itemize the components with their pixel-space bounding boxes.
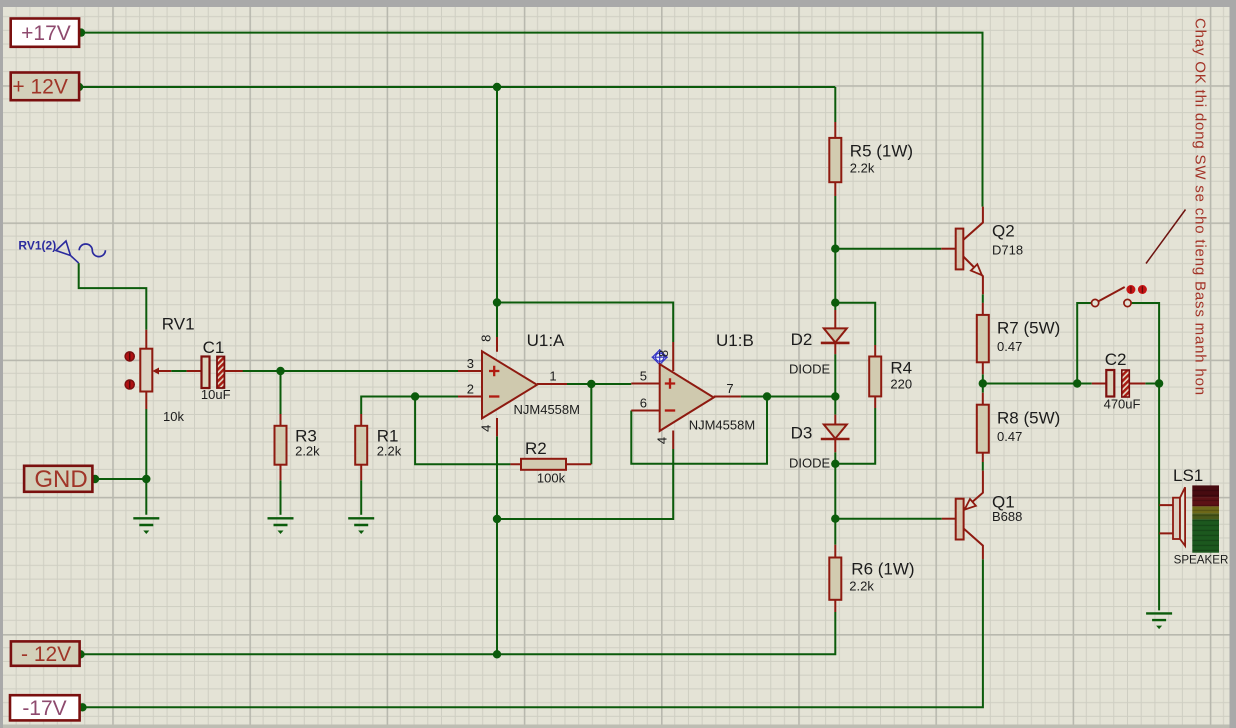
wire R3 top [280, 371, 282, 414]
svg-text:8: 8 [479, 335, 494, 342]
svg-text:U1:B: U1:B [716, 331, 754, 350]
svg-text:220: 220 [890, 377, 912, 392]
svg-text:2.2k: 2.2k [295, 444, 320, 459]
svg-text:2.2k: 2.2k [849, 578, 874, 593]
svg-text:R7 (5W): R7 (5W) [997, 319, 1060, 338]
svg-text:4: 4 [479, 425, 494, 432]
svg-text:0.47: 0.47 [997, 339, 1022, 354]
svg-text:R4: R4 [890, 358, 912, 377]
node GND label [91, 475, 99, 483]
node GND pot [142, 475, 150, 483]
svg-text:470uF: 470uF [1104, 397, 1141, 412]
power label GND [24, 466, 92, 493]
node R1 pin2 [411, 392, 419, 400]
svg-text:NJM4558M: NJM4558M [689, 418, 755, 433]
power label +12V [11, 73, 79, 101]
resistor R4 [869, 345, 912, 408]
svg-text:SPEAKER: SPEAKER [1174, 554, 1229, 567]
wire +17V rail [80, 33, 983, 207]
node +12V [75, 83, 83, 91]
wire speaker column [1158, 384, 1160, 611]
wire pin2 node down to R2 [415, 397, 510, 465]
wire +12V down pin8 column [496, 87, 498, 337]
node Q2 base [831, 245, 839, 253]
node pin4 row [493, 515, 501, 523]
wire R5 top [834, 87, 836, 122]
potentiometer RV1 [125, 315, 201, 425]
wire +12V rail [79, 86, 835, 88]
svg-text:8: 8 [656, 350, 671, 357]
diode D3 [789, 415, 850, 471]
wire U1B feedback [631, 397, 767, 464]
diode D2 [789, 310, 850, 377]
wire R1 bottom [360, 480, 362, 515]
capacitor C2 [1092, 350, 1146, 412]
svg-text:10k: 10k [163, 409, 184, 424]
wire R4 top hook [835, 303, 875, 345]
svg-text:GND: GND [34, 466, 87, 493]
svg-text:B688: B688 [992, 509, 1022, 524]
op-amp U1:A [458, 331, 580, 436]
wire output row to C2 [983, 383, 1092, 385]
node Q1 base [831, 515, 839, 523]
wire pin4 column down [496, 436, 498, 654]
ground symbol R3 [268, 518, 294, 534]
bottom edge strip [3, 725, 1230, 728]
svg-text:RV1(2): RV1(2) [18, 238, 56, 252]
svg-text:0.47: 0.47 [997, 429, 1022, 444]
switch SW [1092, 285, 1147, 307]
svg-text:2: 2 [467, 382, 474, 397]
svg-text:RV1: RV1 [162, 315, 195, 334]
transistor Q1 [942, 471, 1023, 560]
node R7 R8 [979, 379, 987, 387]
op-amp U1:B [631, 331, 755, 449]
svg-text:R3: R3 [295, 426, 317, 445]
wire R3 bottom [280, 480, 282, 515]
node -12V col [493, 650, 501, 658]
resistor R2 [510, 439, 591, 486]
svg-text:-17V: -17V [22, 697, 66, 720]
wire -17V rail [82, 559, 983, 707]
svg-text:4: 4 [655, 437, 670, 444]
wire C2 right to speaker column [1145, 383, 1159, 385]
node C2 right [1155, 379, 1163, 387]
wire pin8 node to U1B pin8 [497, 303, 673, 343]
node D2 R4 [831, 299, 839, 307]
svg-text:U1:A: U1:A [527, 331, 565, 350]
resistor R1 [355, 414, 402, 480]
wire Q1 base [835, 518, 942, 520]
node U1A out [587, 380, 595, 388]
wire -12V rail [80, 612, 835, 654]
wire Q2 emitter gap [982, 294, 984, 303]
wire D3 bottom node [834, 452, 836, 545]
svg-text:R2: R2 [525, 439, 547, 458]
node +12V pin8 [493, 83, 501, 91]
svg-text:R5 (1W): R5 (1W) [850, 142, 913, 161]
resistor R6 [829, 545, 914, 612]
resistor R3 [275, 414, 321, 480]
svg-text:DIODE: DIODE [789, 362, 831, 377]
wire R2 right to output node [590, 384, 592, 464]
svg-text:+17V: +17V [21, 22, 71, 45]
node C2 left [1073, 379, 1081, 387]
wire switch right leg [1131, 303, 1159, 384]
wire RV1 bottom to gnd [145, 409, 147, 515]
node pin8 row [493, 298, 501, 306]
node -12V label [76, 650, 84, 658]
ground symbol pot [133, 518, 159, 534]
capacitor C1 [201, 338, 243, 402]
svg-text:R1: R1 [377, 426, 399, 445]
power label -12V [11, 641, 80, 666]
svg-text:D2: D2 [791, 330, 813, 349]
resistor R5 [829, 122, 913, 196]
wire R1 top to pin2 node [361, 397, 458, 415]
wire node to D3 [834, 397, 836, 415]
wire R7 bottom to node [982, 374, 984, 392]
svg-text:D718: D718 [992, 243, 1023, 258]
power label +17V [11, 19, 79, 47]
svg-text:2.2k: 2.2k [377, 444, 402, 459]
ground symbol speaker [1146, 613, 1172, 629]
origin marker U1:B pin8 [652, 349, 668, 365]
svg-text:10uF: 10uF [201, 387, 231, 402]
wire U1B out to diodes [741, 396, 835, 398]
svg-text:C2: C2 [1105, 350, 1127, 369]
svg-text:1: 1 [549, 369, 556, 384]
node C1 R3 [276, 367, 284, 375]
svg-text:NJM4558M: NJM4558M [514, 402, 580, 417]
resistor R7 [977, 303, 1060, 374]
wire R5 bottom to base node to D2 [834, 196, 836, 310]
ground symbol R1 [348, 518, 374, 534]
wire C1 to R3 junction to pin3 [241, 370, 458, 372]
node diode mid [831, 392, 839, 400]
svg-text:3: 3 [467, 356, 474, 371]
svg-text:+ 12V: + 12V [12, 76, 67, 99]
svg-text:D3: D3 [791, 424, 813, 443]
signal source RV1(2) [18, 238, 105, 263]
svg-text:C1: C1 [203, 338, 225, 357]
node D3 R4 [831, 460, 839, 468]
svg-text:Chay OK thi dong SW se cho tie: Chay OK thi dong SW se cho tieng Bass ma… [1192, 18, 1209, 396]
wire U1A out to U1B in [567, 383, 631, 385]
wire R8 bottom gap [982, 462, 984, 471]
svg-text:6: 6 [640, 396, 647, 411]
wire R4 bottom hook [835, 408, 875, 464]
svg-text:100k: 100k [537, 471, 566, 486]
wire RV1 source to pot [79, 263, 147, 330]
svg-text:LS1: LS1 [1173, 466, 1203, 485]
svg-text:7: 7 [726, 381, 733, 396]
svg-text:DIODE: DIODE [789, 456, 831, 471]
wire switch left leg [1077, 303, 1091, 384]
svg-text:5: 5 [640, 369, 647, 384]
svg-text:Q2: Q2 [992, 222, 1015, 241]
speaker LS1 [1159, 466, 1228, 566]
wire D2 to node [834, 354, 836, 396]
node +17V [77, 28, 85, 36]
resistor R8 [977, 393, 1060, 462]
svg-text:2.2k: 2.2k [850, 160, 875, 175]
node U1B out [763, 392, 771, 400]
wire pin4 row U1B [497, 449, 673, 519]
node -17V label [78, 703, 86, 711]
svg-text:R6 (1W): R6 (1W) [851, 560, 914, 579]
annotation pointer line [1146, 210, 1186, 264]
wire Q2 base [835, 248, 941, 250]
svg-text:- 12V: - 12V [21, 643, 71, 666]
transistor Q2 [941, 207, 1023, 295]
svg-text:R8 (5W): R8 (5W) [997, 409, 1060, 428]
wire GND rail [94, 478, 146, 480]
power label -17V [10, 695, 80, 720]
